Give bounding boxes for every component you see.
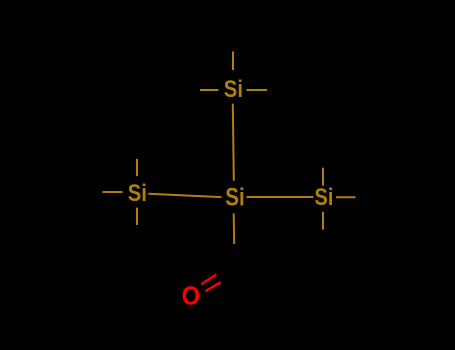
bond Si3 methyl right <box>336 196 356 198</box>
bond Si1 methyl left <box>200 89 219 91</box>
bond Si1 methyl up <box>232 52 234 71</box>
bond Si2 methyl down <box>136 208 138 225</box>
svg-text:Si: Si <box>225 184 244 212</box>
bond Si0-C carbonyl half <box>233 213 236 244</box>
bond Si1-Si0 <box>233 104 234 181</box>
bond Si1 methyl right <box>247 89 268 91</box>
bond Si3 methyl down <box>322 212 324 230</box>
bond Si2-Si0 <box>148 194 221 197</box>
bond Si2 methyl up <box>136 159 138 176</box>
svg-text:Si: Si <box>315 184 334 211</box>
bond Si0-Si3 <box>247 196 314 198</box>
bond Si3 methyl up <box>322 168 324 186</box>
bond Si2 methyl left <box>103 191 123 193</box>
svg-text:O: O <box>182 280 201 310</box>
svg-text:Si: Si <box>128 180 147 207</box>
bond C=O upper line <box>201 274 216 284</box>
bond C=O lower line <box>205 282 220 291</box>
svg-text:Si: Si <box>224 76 243 103</box>
